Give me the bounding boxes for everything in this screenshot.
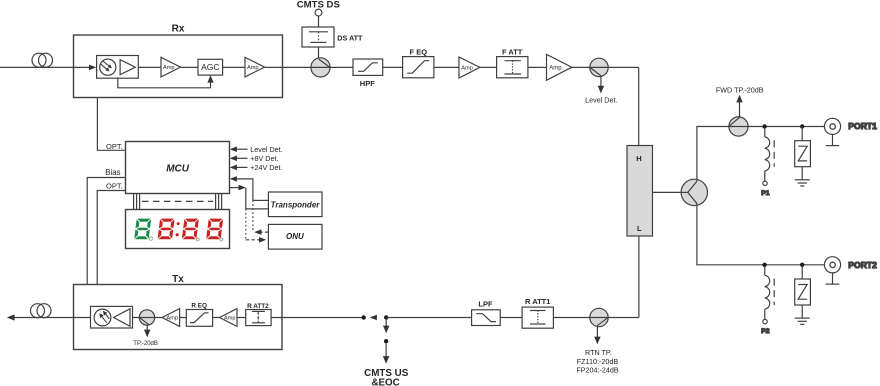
svg-text:Amp: Amp (167, 316, 179, 322)
label &EOC (371, 377, 399, 386)
attenuator R ATT2 (246, 310, 271, 326)
label FP204:-24dB (576, 366, 619, 375)
wire amp1 to AGC (181, 66, 199, 68)
amplifier Amp (rtn 1st) (220, 309, 238, 327)
AGC box (198, 59, 223, 75)
Rx box (74, 35, 283, 98)
inductor P1 (763, 128, 774, 186)
label FWD TP.-20dB (716, 86, 764, 95)
seven-segment digit 2 (red) (158, 219, 175, 240)
splitter (681, 179, 707, 205)
svg-text:HPF: HPF (360, 79, 375, 88)
display connector pins left (134, 193, 140, 209)
svg-text:Amp.: Amp. (549, 66, 563, 72)
label Level Det. MCU (250, 145, 282, 154)
label PORT2 (848, 260, 877, 270)
wire splitter to port1 branch (697, 127, 825, 182)
svg-text:Transponder: Transponder (271, 201, 321, 210)
arrow into photodiode (89, 65, 96, 71)
label R ATT1 (525, 297, 550, 306)
dashed wire display bus (142, 200, 213, 202)
amplifier Amp (fwd 2nd) (547, 54, 572, 80)
wire AGC to amp2 (223, 66, 245, 68)
amplifier Amp (Rx 2nd) (245, 57, 265, 77)
svg-text:FZ110:-20dB: FZ110:-20dB (577, 357, 619, 366)
ground PORT1 (826, 135, 840, 146)
wire FATT to amp4 (528, 66, 547, 68)
svg-text:MCU: MCU (166, 164, 190, 175)
attenuator F ATT (497, 57, 528, 78)
wire diplexer bottom down (638, 236, 640, 318)
wire Rx out (265, 66, 312, 68)
amplifier Amp (fwd 1st) (459, 57, 480, 78)
wire HPF to FEQ (383, 66, 403, 68)
label ONU (286, 232, 304, 241)
label MCU (166, 164, 190, 175)
wire forward input (0, 66, 90, 68)
display connector pins right (216, 193, 222, 209)
svg-text:L: L (637, 224, 642, 233)
coupler FWD test point (729, 117, 748, 136)
arrow Level Det. into MCU (230, 146, 248, 152)
seven-segment digit 1 (green) (134, 219, 151, 240)
svg-text:Bias: Bias (105, 168, 120, 177)
svg-text:RTN TP.: RTN TP. (585, 348, 612, 357)
svg-text:Tx: Tx (172, 274, 184, 285)
wire LPF to RATT1 (500, 317, 522, 319)
svg-text:Amp: Amp (247, 65, 259, 71)
connector PORT2 (824, 257, 840, 273)
wire Rx to MCU OPT (97, 98, 125, 151)
wire MCU output to transponder (230, 185, 269, 209)
arrow down to node (383, 320, 389, 334)
fiber coil Tx output (31, 304, 52, 318)
svg-text:+8V Det.: +8V Det. (250, 154, 278, 163)
dotted wire ONU output up (253, 200, 269, 235)
photodiode module (97, 56, 139, 79)
label RTN TP. (585, 348, 612, 357)
filter LPF (472, 310, 501, 326)
arrow +24V Det. into MCU (230, 165, 248, 171)
label L (637, 224, 642, 233)
wire Bias to MCU (87, 178, 125, 285)
svg-text:P2: P2 (761, 328, 770, 335)
varistor port2 (795, 265, 811, 305)
Transponder box (268, 192, 322, 217)
svg-text:Rx: Rx (172, 24, 185, 35)
svg-text:AGC: AGC (201, 62, 219, 72)
svg-text:OPT.: OPT. (106, 142, 123, 151)
label H (636, 154, 641, 163)
coupler CMTS DS injection (311, 58, 330, 77)
wire return line left (9, 317, 362, 319)
node dot left of branch (362, 315, 366, 319)
svg-text:F ATT: F ATT (502, 47, 523, 56)
svg-text:FP204:-24dB: FP204:-24dB (576, 366, 619, 375)
display box (126, 210, 230, 249)
svg-text:Amp: Amp (163, 65, 175, 71)
node branch junction (384, 315, 388, 319)
wire diplexer to splitter (653, 191, 682, 193)
node J4 (800, 263, 804, 267)
label CMTS DS (297, 0, 341, 11)
arrow FWD TP (736, 95, 742, 117)
seven-segment digit 3 (red) (182, 219, 199, 240)
svg-text:PORT2: PORT2 (848, 260, 877, 270)
wire FEQ to amp3 (434, 66, 459, 68)
svg-text:R EQ: R EQ (191, 303, 207, 310)
inductor P2 (763, 266, 774, 324)
wire amp3 to FATT (480, 66, 497, 68)
varistor port1 (795, 127, 811, 167)
ground varistor port2 (795, 305, 810, 324)
fiber coil Rx input (32, 53, 53, 67)
label R ATT2 (247, 303, 269, 310)
filter HPF (353, 59, 383, 75)
amplifier Amp (rtn 2nd) (162, 309, 180, 327)
wire coupler to HPF (330, 66, 353, 68)
ONU box (268, 224, 322, 249)
dotted wire down to ONU input (246, 209, 266, 243)
wire branch to LPF (386, 317, 471, 319)
svg-text:DS ATT: DS ATT (337, 34, 363, 43)
display decimal dots (149, 237, 223, 241)
label Bias (105, 168, 120, 177)
svg-text:Amp: Amp (224, 316, 236, 322)
wire amp4 to level coupler and right (572, 66, 639, 68)
label FZ110:-20dB (577, 357, 619, 366)
amplifier Amp (Rx 1st) (161, 57, 181, 77)
label Level Det. (585, 95, 617, 104)
svg-text:Amp: Amp (461, 65, 473, 71)
MCU box (126, 142, 230, 194)
label DS ATT (337, 34, 363, 43)
node J2 (800, 124, 804, 128)
CMTS DS port (315, 9, 322, 16)
label Tx (172, 274, 184, 285)
arrow RTN TP (594, 326, 600, 344)
arrow toward node (370, 315, 377, 321)
laser diode module (91, 306, 133, 328)
label TP.-20dB (133, 341, 158, 347)
diplexer H/L (627, 146, 653, 237)
arrow +8V Det. into MCU (230, 156, 248, 162)
label P1 (761, 190, 770, 197)
label Transponder (271, 201, 321, 210)
label +8V Det. (250, 154, 278, 163)
attenuator DS ATT (302, 27, 334, 47)
ground PORT2 (826, 273, 840, 284)
svg-text:PORT1: PORT1 (848, 121, 877, 131)
svg-text:OPT.: OPT. (106, 182, 123, 191)
equalizer F EQ (403, 57, 434, 78)
label LPF (478, 300, 493, 309)
svg-text:P1: P1 (761, 190, 770, 197)
ground varistor port1 (795, 167, 810, 186)
wire RATT1 to RTN coupler (553, 317, 639, 319)
label R EQ (191, 303, 207, 310)
svg-text:FWD TP.-20dB: FWD TP.-20dB (716, 86, 764, 95)
svg-text:F EQ: F EQ (410, 47, 428, 56)
label PORT1 (848, 121, 877, 131)
svg-text:LPF: LPF (478, 300, 493, 309)
label P2 (761, 328, 770, 335)
label HPF (360, 79, 375, 88)
wire OPT lower to MCU (97, 191, 125, 285)
coupler level detect (590, 58, 608, 76)
label +24V Det. (250, 163, 282, 172)
label CMTS US (364, 368, 409, 379)
node J3 (762, 263, 766, 267)
svg-text:R ATT1: R ATT1 (525, 297, 550, 306)
label F EQ (410, 47, 428, 56)
label Rx (172, 24, 185, 35)
wire transponder to MCU input (230, 176, 269, 200)
svg-text:&EOC: &EOC (371, 377, 399, 386)
seven-segment digit 4 (red) (206, 219, 223, 240)
wire down to diplexer (638, 67, 640, 145)
display colon (176, 222, 180, 236)
wire DS ATT to coupler (318, 47, 320, 60)
svg-text:CMTS DS: CMTS DS (297, 0, 341, 11)
arrow level det (598, 76, 604, 94)
coupler RTN test point (590, 308, 608, 326)
attenuator R ATT1 (522, 307, 553, 328)
AGC feedback wire (118, 75, 214, 88)
svg-text:R ATT2: R ATT2 (247, 303, 269, 310)
svg-text:ONU: ONU (286, 232, 304, 241)
wire pd to amp1 (138, 66, 161, 68)
label F ATT (502, 47, 523, 56)
svg-text:+24V Det.: +24V Det. (250, 163, 282, 172)
node CMTS US (384, 339, 388, 343)
coupler Tx test point (139, 310, 154, 325)
arrow return out (7, 314, 15, 320)
svg-text:Level Det.: Level Det. (585, 95, 617, 104)
node J1 (762, 124, 766, 128)
equalizer R EQ (186, 310, 212, 327)
svg-text:H: H (636, 154, 641, 163)
wire port to DS ATT (318, 16, 320, 27)
arrow TP (144, 325, 150, 337)
svg-text:TP.-20dB: TP.-20dB (133, 341, 158, 347)
wire splitter to port2 branch (697, 204, 825, 265)
svg-text:Level Det.: Level Det. (250, 145, 282, 154)
Tx box (74, 285, 283, 350)
label OPT. lower (106, 182, 123, 191)
arrow to CMTS US label (383, 343, 389, 363)
label OPT. upper (106, 142, 123, 151)
connector PORT1 (824, 118, 840, 134)
